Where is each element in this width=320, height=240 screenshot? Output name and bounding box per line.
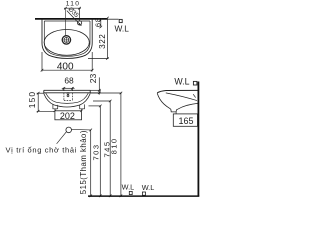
left tip edge (front) [43, 90, 45, 93]
leader to 515 line [71, 128, 91, 131]
svg-text:703: 703 [92, 143, 101, 160]
leader to label [57, 132, 67, 144]
svg-text:W.L: W.L [174, 77, 189, 87]
bowl oval (plan) [44, 30, 89, 56]
dimension 703 (bowl bottom height) [89, 105, 102, 198]
svg-text:400: 400 [57, 62, 74, 73]
leader Ø35 (faucet hole diameter) [67, 11, 82, 26]
centerline through faucet/drain [65, 8, 67, 36]
drain outer circle [62, 36, 70, 44]
right mounting lug (front) [80, 104, 85, 108]
rim top line (front) [44, 89, 90, 91]
svg-text:150: 150 [27, 91, 37, 109]
svg-text:322: 322 [98, 34, 107, 49]
dimension 515 (waste height, reference) [89, 129, 92, 198]
svg-text:W.L: W.L [142, 183, 155, 192]
dimension 745 (apron height) [93, 100, 112, 197]
svg-text:515(Tham khảo): 515(Tham khảo) [79, 130, 88, 194]
svg-text:165: 165 [178, 116, 193, 126]
W.L marker square (plan wall line end) [119, 19, 122, 22]
mounting hole upper (front) [67, 93, 69, 95]
outer bowl curve (front) [44, 94, 90, 107]
dimension 68 (plan, wall to hole, rotated) [100, 18, 103, 28]
hanger bracket (side) [193, 94, 195, 97]
basin back edge line (plan) [44, 20, 90, 22]
dimension 165 (boxed, drain offset) [173, 114, 197, 126]
basin rim top profile (side) [157, 90, 197, 92]
wall line (side) [197, 82, 199, 197]
W.L marker square (floor left) [129, 191, 132, 194]
basin inner rim line (plan) [44, 21, 90, 56]
svg-text:810: 810 [109, 137, 118, 154]
svg-text:202: 202 [60, 111, 75, 121]
svg-text:68: 68 [64, 76, 74, 86]
mounting hole lower (front) [67, 95, 69, 97]
faucet box dashed bottom (front) [64, 99, 73, 101]
right tip edge (front) [89, 90, 91, 93]
dimension 110 (plan, faucet hole offset) [64, 7, 81, 21]
svg-text:W.L: W.L [115, 23, 130, 33]
svg-text:Vị trí ống chờ thải: Vị trí ống chờ thải [6, 145, 77, 154]
wall line (plan) [35, 18, 107, 20]
faucet box dashed left (front) [63, 93, 65, 101]
dimension 68 (front faucet box) [62, 87, 75, 91]
dimension 23 (rim thickness) [90, 77, 101, 94]
waste pipe circle [66, 127, 72, 133]
basin underside profile (side) [157, 93, 197, 112]
svg-text:68: 68 [93, 17, 102, 27]
deck line (front) [44, 92, 90, 94]
left mounting lug (front) [53, 104, 58, 108]
floor line [88, 195, 199, 197]
dimension 150 (front height) [37, 92, 54, 113]
bowl inner line (side) [166, 93, 197, 101]
basin outer outline (plan) [42, 19, 92, 59]
dimension 202 (boxed, lug spacing) [54, 109, 83, 120]
dimension 400 (plan width) [41, 52, 94, 72]
drain inner circle [64, 38, 69, 43]
faucet hole (plan, right) [78, 21, 82, 25]
faucet box dashed right (front) [71, 93, 73, 101]
svg-text:W.L: W.L [122, 183, 135, 192]
drain cross mark [65, 37, 67, 42]
W.L marker square (floor right) [142, 192, 145, 195]
svg-text:23: 23 [88, 74, 98, 84]
W.L marker square (side wall top) [193, 81, 197, 85]
inner bowl curve (front) [46, 93, 89, 104]
drain extension line (side) [175, 112, 177, 114]
dimension 322 (plan depth) [88, 17, 109, 60]
dimension 810 (rim height) [91, 92, 122, 197]
